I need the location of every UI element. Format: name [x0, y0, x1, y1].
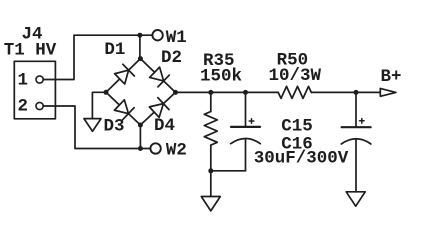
wire R50 to B+ arrow: [311, 91, 380, 93]
capacitor C15: [211, 92, 260, 170]
junction on W2 wire: [138, 146, 143, 151]
terminal W2: [150, 143, 160, 153]
svg-text:D1: D1: [104, 40, 125, 60]
wire pin2 to W2 net: [43, 106, 150, 149]
svg-text:T1 HV: T1 HV: [4, 41, 57, 61]
wire pin1 to W1 net: [43, 35, 152, 79]
junction C16 top: [354, 90, 359, 95]
terminal W1: [152, 30, 162, 40]
plus mark C16: [360, 119, 365, 124]
svg-text:D2: D2: [161, 48, 182, 68]
resistor R50: [278, 86, 311, 98]
svg-text:D4: D4: [154, 116, 175, 136]
svg-text:150k: 150k: [200, 67, 242, 87]
resistor R35: [204, 92, 217, 171]
wire bridge bottom to W2 junction: [139, 125, 141, 149]
svg-text:W2: W2: [166, 141, 187, 161]
junction R35 bottom / C15 bottom: [208, 168, 213, 173]
wire W1 junction to bridge top: [139, 35, 141, 58]
capacitor C16: [341, 92, 371, 191]
svg-text:2: 2: [18, 97, 29, 117]
plus mark C15: [249, 119, 254, 124]
ground at bridge left: [84, 119, 101, 132]
junction bridge right node: [173, 90, 178, 95]
B+ arrow: [380, 89, 396, 97]
wire bridge right node to R50: [176, 91, 279, 93]
pin 2 circle: [36, 102, 43, 109]
junction C15 top: [243, 90, 248, 95]
junction R35 top: [208, 90, 213, 95]
svg-text:W1: W1: [166, 28, 187, 48]
diode D1: [106, 59, 140, 93]
svg-text:B+: B+: [381, 67, 402, 87]
svg-text:D3: D3: [104, 117, 125, 137]
junction bridge top node: [138, 56, 143, 61]
wire junction to ground: [210, 171, 212, 197]
diode D2: [140, 59, 175, 93]
diode D3: [106, 92, 140, 125]
svg-text:1: 1: [18, 71, 29, 91]
connector J4 box: [14, 61, 55, 119]
junction on W1 wire: [137, 33, 142, 38]
pin 1 circle: [36, 76, 43, 83]
ground below R35/C15: [201, 197, 220, 211]
diode D4: [140, 92, 175, 125]
svg-text:10/3W: 10/3W: [269, 66, 322, 86]
svg-text:30uF/300V: 30uF/300V: [254, 149, 349, 169]
wire bridge left node to ground: [92, 92, 106, 118]
ground below C16: [346, 192, 365, 206]
junction bridge bottom node: [138, 123, 143, 128]
junction bridge left node: [104, 90, 109, 95]
